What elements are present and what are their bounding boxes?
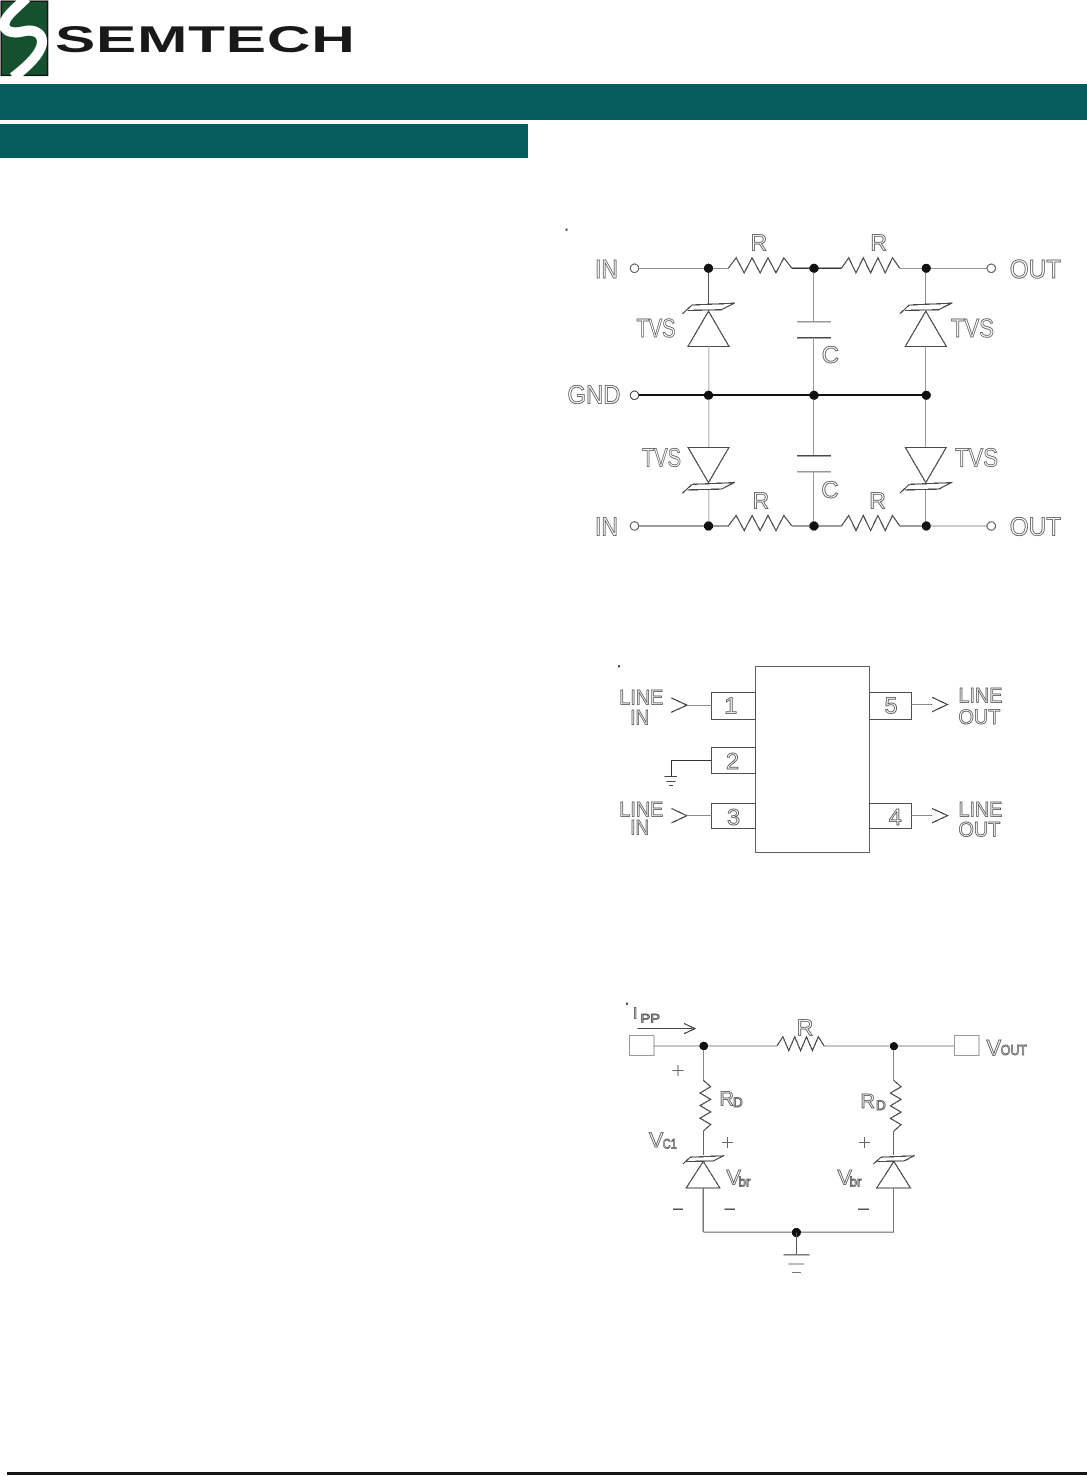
- svg-text:OUT: OUT: [1010, 513, 1061, 542]
- junction dot GND right: [922, 391, 931, 400]
- svg-text:C1: C1: [663, 1136, 677, 1152]
- wire TVS4 to bottom line: [925, 490, 927, 522]
- wire junction A to resistor 2 (top): [792, 267, 842, 269]
- resistor R (top-right): [841, 258, 899, 273]
- svg-text:I: I: [633, 1005, 637, 1022]
- wire resistor 2 to junction C (top): [900, 267, 927, 269]
- diode Z1 triangle: [686, 1162, 720, 1188]
- wire node 2 down to RD2: [893, 1050, 895, 1080]
- svg-text:OUT: OUT: [1010, 255, 1061, 284]
- TVS D4 triangle (lower-right): [905, 447, 946, 482]
- wire pin 5 to arrow: [912, 704, 933, 706]
- junction dot ground node: [792, 1228, 801, 1237]
- svg-text:PP: PP: [641, 1012, 660, 1026]
- junction dot GND left: [704, 391, 713, 400]
- TVS D3 bar (lower-left): [683, 482, 736, 493]
- svg-text:R: R: [869, 488, 886, 514]
- wire TVS3 to bottom line: [708, 490, 710, 522]
- wire GND down to TVS4: [925, 400, 927, 448]
- stray dot: [565, 229, 567, 231]
- svg-text:R: R: [752, 488, 769, 514]
- wire node 2 to output box: [898, 1045, 954, 1047]
- pin 4 box: [870, 804, 912, 829]
- svg-text:C: C: [821, 477, 838, 504]
- wire node 1 down to RD1: [703, 1050, 705, 1080]
- pin 2 box: [712, 748, 756, 774]
- wire resistor R to node 2: [824, 1045, 889, 1047]
- svg-text:2: 2: [726, 748, 739, 774]
- wire arrow to pin 1: [687, 705, 712, 707]
- plus sign (node 1): [673, 1065, 684, 1076]
- svg-text:OUT: OUT: [959, 705, 1001, 729]
- capacitor C1 plate 2: [797, 337, 831, 339]
- resistor R (series): [777, 1037, 824, 1051]
- SEMTECH logotype: [55, 19, 356, 61]
- ground stem: [795, 1233, 797, 1255]
- svg-text:IN: IN: [595, 256, 618, 285]
- wire junction A down to TVS1: [708, 273, 710, 305]
- svg-text:R: R: [797, 1014, 814, 1040]
- TVS D2 triangle (upper-right): [905, 311, 946, 346]
- resistor R (bottom-left): [728, 516, 792, 531]
- svg-text:TVS: TVS: [642, 443, 681, 472]
- plus sign (above Z2): [859, 1137, 870, 1148]
- junction dot F (bottom-right): [922, 521, 931, 530]
- svg-text:IN: IN: [630, 817, 649, 840]
- resistor RD2: [890, 1081, 901, 1132]
- svg-text:br: br: [739, 1175, 752, 1190]
- resistor R (top-left): [728, 258, 792, 273]
- wire IN to junction A: [639, 267, 728, 269]
- ground symbol (pin 2): [665, 777, 677, 786]
- svg-text:V: V: [987, 1036, 1002, 1061]
- svg-text:IN: IN: [630, 707, 649, 730]
- junction dot GND center: [809, 391, 818, 400]
- terminal GND: [630, 391, 638, 399]
- svg-text:4: 4: [889, 804, 902, 830]
- svg-text:LINE: LINE: [959, 684, 1003, 708]
- wire arrow to pin 3: [687, 815, 712, 817]
- wire Z2 to bottom rail: [893, 1188, 895, 1232]
- svg-text:R: R: [750, 229, 767, 255]
- bottom rail wire: [703, 1231, 894, 1233]
- junction dot C (top-right): [922, 264, 931, 273]
- wire capacitor C2 to bottom line: [813, 472, 815, 522]
- resistor RD1: [700, 1080, 711, 1130]
- capacitor C2 plate 2: [797, 471, 831, 473]
- teal header bar 2: [0, 124, 528, 158]
- wire pin 2 to ground: [672, 761, 712, 777]
- TVS D4 bar (lower-right): [900, 482, 953, 493]
- svg-text:V: V: [649, 1128, 664, 1152]
- svg-text:C: C: [822, 342, 839, 369]
- stray dot: [626, 1003, 628, 1005]
- wire junction C down to TVS2: [925, 273, 927, 304]
- wire junction C to OUT terminal (top): [926, 267, 987, 269]
- wire GND down to capacitor C2: [813, 400, 815, 456]
- GND bus wire: [639, 394, 926, 396]
- junction dot D (bottom-left): [704, 521, 713, 530]
- stray dot: [618, 665, 620, 667]
- wire node 1 to resistor R: [708, 1045, 777, 1047]
- wire RD2 to diode Z2: [893, 1131, 895, 1155]
- svg-text:1: 1: [724, 693, 737, 719]
- wire resistor to junction F (bottom): [900, 525, 927, 527]
- pin 1 box: [712, 693, 756, 720]
- svg-text:5: 5: [884, 693, 897, 719]
- bottom rule: [7, 1472, 1087, 1475]
- junction dot B (top-center): [809, 264, 818, 273]
- svg-text:GND: GND: [568, 380, 621, 409]
- wire GND down to TVS3: [708, 400, 710, 448]
- terminal OUT bottom: [987, 522, 995, 530]
- ground symbol: [784, 1255, 810, 1273]
- wire TVS1 to GND line: [708, 346, 710, 391]
- wire TVS2 to GND line: [925, 346, 927, 391]
- wire junction F to OUT terminal (bottom): [926, 525, 987, 527]
- minus sign (left of Z1): [673, 1208, 683, 1210]
- wire RD1 to diode Z1: [703, 1131, 705, 1155]
- junction dot node 1: [700, 1042, 709, 1051]
- input terminal box: [630, 1036, 655, 1056]
- svg-text:3: 3: [727, 804, 740, 830]
- arrow out of pin 4: [932, 808, 948, 823]
- svg-text:R: R: [861, 1091, 875, 1113]
- svg-text:TVS: TVS: [951, 314, 994, 343]
- wire IN to junction D (bottom): [639, 525, 728, 527]
- svg-text:TVS: TVS: [955, 444, 998, 473]
- svg-text:IN: IN: [595, 513, 618, 542]
- svg-text:D: D: [733, 1095, 743, 1110]
- minus sign (below Z1): [725, 1208, 735, 1210]
- capacitor C2 plate 1: [797, 455, 831, 457]
- svg-text:OUT: OUT: [1001, 1042, 1028, 1058]
- diode Z2 triangle: [877, 1162, 911, 1188]
- svg-text:TVS: TVS: [637, 313, 676, 342]
- svg-text:R: R: [870, 229, 887, 255]
- diode Z2 bar: [873, 1155, 914, 1164]
- svg-text:R: R: [720, 1088, 734, 1110]
- svg-text:D: D: [876, 1098, 886, 1113]
- output terminal box: [955, 1036, 980, 1056]
- minus sign (below Z2): [858, 1208, 869, 1210]
- wire input box to node 1: [654, 1045, 700, 1047]
- junction dot node 2: [890, 1042, 898, 1050]
- terminal IN top: [630, 264, 638, 272]
- plus sign (above Z1): [722, 1137, 733, 1148]
- Semtech logo square: [0, 0, 52, 80]
- wire capacitor C1 to GND line: [813, 338, 815, 392]
- arrow into pin 1: [671, 698, 687, 713]
- pin 5 box: [870, 693, 912, 720]
- junction dot E (bottom-center): [809, 521, 818, 530]
- diode Z1 bar: [683, 1155, 724, 1164]
- current arrow Ipp: [638, 1028, 693, 1030]
- arrow into pin 3: [672, 809, 687, 823]
- wire Z1 to bottom rail: [702, 1188, 704, 1232]
- wire pin 4 to arrow: [912, 815, 933, 817]
- TVS D1 bar (upper-left): [683, 303, 736, 314]
- capacitor C1 plate 1: [797, 321, 831, 323]
- resistor R (bottom-right): [841, 516, 899, 531]
- wire junction D to resistor (bottom): [792, 525, 842, 527]
- TVS D1 triangle (upper-left): [688, 311, 729, 346]
- svg-text:br: br: [850, 1175, 863, 1190]
- svg-text:OUT: OUT: [959, 818, 1001, 842]
- TVS D2 bar (upper-right): [900, 303, 953, 314]
- teal header bar 1: [0, 84, 1087, 120]
- wire junction B down to capacitor C1: [813, 273, 815, 322]
- terminal IN bottom: [630, 522, 638, 530]
- TVS D3 triangle (lower-left): [688, 447, 729, 482]
- pin 3 box: [712, 804, 756, 829]
- junction dot A (top-left): [704, 264, 713, 273]
- terminal OUT top: [987, 264, 995, 272]
- IC body U1: [756, 667, 870, 853]
- arrow out of pin 5: [932, 697, 947, 712]
